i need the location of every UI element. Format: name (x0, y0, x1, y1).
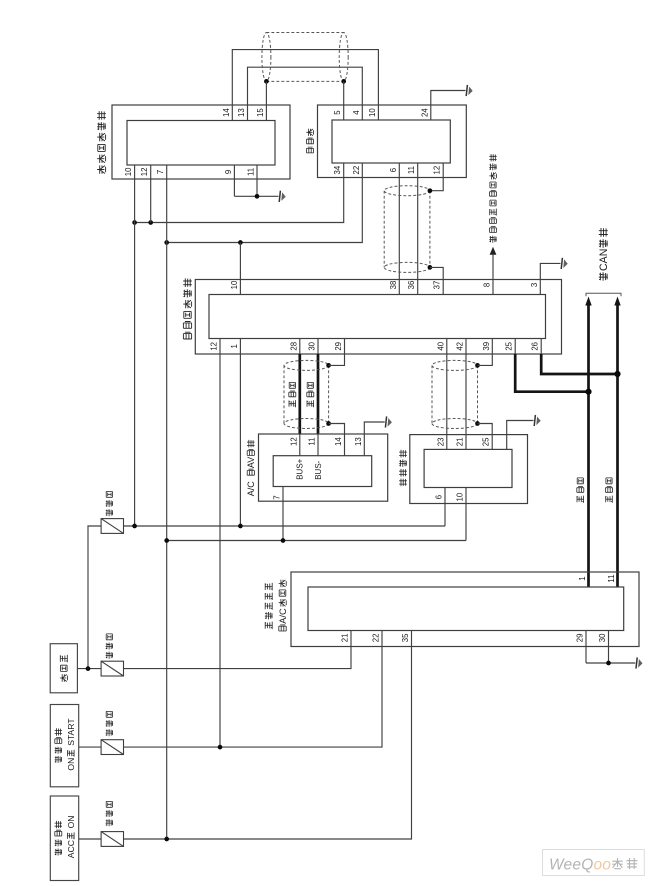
arrowhead CAN right (614, 297, 620, 306)
svg-text:ON: ON (66, 758, 76, 771)
label 数据线 (CAN-L) (577, 478, 584, 503)
svg-text:3: 3 (530, 283, 539, 287)
svg-text:12: 12 (433, 166, 442, 175)
svg-text:9: 9 (224, 170, 233, 174)
label ON或START (66, 718, 76, 771)
svg-text:8: 8 (483, 283, 492, 287)
wire meter pin30 down (608, 631, 610, 664)
shielded cable S3 (DCU-AC data) (284, 360, 329, 428)
fuse F3 保险丝 (101, 740, 123, 755)
label BUS+ (295, 458, 304, 479)
svg-text:A/C: A/C (246, 481, 256, 497)
svg-text:12: 12 (140, 168, 149, 177)
label BUS- (314, 460, 323, 479)
label 数据线 (CAN-H) (606, 478, 613, 503)
fuse F2 保险丝 (101, 661, 123, 676)
wire DCU pin12 down to ON/START line (219, 339, 221, 748)
fuse F4 保险丝 (101, 832, 123, 847)
wire shield S1 to display pin5 (343, 81, 345, 120)
junction CAN-L / DCU25 (585, 389, 591, 395)
label 至CAN系统 (598, 228, 610, 281)
svg-text:11: 11 (247, 168, 256, 176)
ignition switch 点火开关 ACC或ON (50, 796, 78, 881)
junction line2/nav7 (164, 538, 169, 543)
wire AC pin7 down to AV supply line (282, 487, 284, 541)
svg-text:4: 4 (352, 110, 361, 115)
wire meter pin29 down (585, 631, 587, 664)
wire data line DCU28 to AC12 (thick) (298, 354, 301, 434)
svg-text:40: 40 (436, 341, 445, 350)
junction nav11/ground (255, 194, 260, 199)
svg-text:13: 13 (354, 437, 363, 446)
svg-text:BUS-: BUS- (314, 460, 323, 479)
shielded cable S4 (DCU-audio) (432, 360, 478, 428)
junction nav7/disp22 (164, 240, 169, 245)
ground G3 (DCU 3) (561, 258, 568, 269)
junction ON-line/DCU12 (218, 745, 223, 750)
label ACC或ON (66, 816, 76, 859)
svg-text:1: 1 (230, 344, 239, 348)
ground G6 (meter 29/30) (636, 657, 643, 668)
wire nav 9-11 join to ground (234, 195, 278, 197)
shield S3 bottom drain (326, 421, 331, 426)
svg-text:36: 36 (407, 281, 416, 290)
ground G1 (nav 9/11) (279, 191, 286, 202)
junction ACC-line/nav7 (164, 837, 169, 842)
svg-text:25: 25 (482, 437, 491, 446)
stub DCU pin28 (299, 339, 301, 355)
watermark 维库 (612, 858, 637, 869)
label 显示控制单元 (183, 278, 192, 339)
svg-text:11: 11 (407, 166, 416, 174)
label 数据线 (S3 right) (307, 382, 314, 407)
wire data line DCU25 to CAN-L (thick) (515, 354, 588, 392)
svg-text:START: START (66, 718, 76, 746)
wire shield S1 to nav pin15 (265, 81, 267, 120)
svg-text:ACC: ACC (66, 840, 76, 858)
wire shield S3 bottom to AC pin14 (329, 424, 345, 456)
shield S1 left drain junction (264, 79, 269, 84)
label 保险丝 (F3) (106, 711, 113, 736)
junction fuse1/nav10 (132, 524, 137, 529)
wire nav pin12 down (150, 165, 152, 223)
wire fuse1 feed line (ACC-B) to audio pin6 (123, 525, 445, 527)
svg-text:ON: ON (66, 816, 76, 829)
wire pin14 nav to pin10 display (outer loop) (232, 50, 378, 121)
shield S3 top drain (326, 363, 331, 368)
svg-text:12: 12 (210, 342, 219, 351)
wire nav pin11 down (256, 165, 258, 196)
svg-text:6: 6 (435, 495, 444, 499)
svg-text:22: 22 (352, 166, 361, 175)
wire CAN line right (thick) (616, 305, 619, 587)
svg-text:1: 1 (578, 576, 587, 580)
wire display pin11 to DCU pin36 (417, 163, 419, 295)
wire audio ground pin up (507, 421, 534, 450)
shielded cable S1 (nav13/15 - display 5/4) (262, 33, 348, 82)
label A/C和AV开关 (246, 440, 256, 496)
label 点火开关 (ACC) (55, 821, 62, 856)
wire ign2 to fuse4 (79, 838, 102, 840)
wire display pin22 bus to nav pin7 line (167, 163, 363, 243)
A/C and AV switch A/C和AV开关 (259, 434, 388, 501)
svg-text:WeeQoo: WeeQoo (549, 857, 611, 874)
svg-text:6: 6 (389, 168, 398, 172)
wire battery to fuse2 (77, 668, 101, 670)
shield S2 bottom drain (428, 265, 433, 270)
wire display pin6 to DCU pin38 (398, 163, 400, 295)
wire nav pin7 down to ACC line (166, 165, 168, 839)
wire display pin12 to shield S2 top (430, 163, 443, 191)
integrated meter and A/C amplifier 一体化仪表和A/C放大器 (291, 572, 639, 647)
stub DCU pin30 (317, 339, 319, 355)
label 保险丝 (F2) (106, 634, 113, 659)
svg-text:23: 23 (436, 438, 445, 447)
wire audio pin6 down (444, 488, 446, 527)
svg-text:11: 11 (607, 575, 616, 583)
wire shield S2 bottom to DCU pin37 (430, 267, 443, 294)
wire shield S4 bottom to audio pin25 (478, 424, 493, 450)
label 蓄电池 (60, 655, 68, 682)
svg-text:10: 10 (230, 280, 239, 289)
ground G4 (AC 13) (385, 416, 392, 427)
label 和A/C放大器 (278, 580, 288, 631)
junction nav10/disp34 (132, 220, 137, 225)
label 保险丝 (F4) (106, 801, 113, 826)
junction line2/AC7 (281, 538, 286, 543)
svg-text:38: 38 (389, 281, 398, 290)
label 显示器 (306, 129, 313, 153)
svg-text:24: 24 (420, 108, 429, 117)
shielded cable S2 (display-DCU) (384, 186, 430, 273)
label 一体化仪表 (265, 583, 273, 629)
svg-text:A/C: A/C (278, 608, 288, 624)
display unit 显示器 (318, 105, 467, 178)
svg-text:7: 7 (273, 495, 282, 499)
junction nav12/disp34 (148, 220, 153, 225)
wire DCU pin42 to audio pin21 (465, 339, 467, 450)
wire shield S3 top to DCU pin29 (329, 339, 345, 366)
svg-text:35: 35 (401, 633, 410, 642)
wire AC pin13 to ground (364, 422, 384, 456)
label 音响单元 (399, 450, 407, 486)
ignition switch 点火开关 ON或START (50, 705, 78, 787)
wire data line DCU26 to CAN-H (thick) (541, 354, 617, 374)
battery 蓄电池 (50, 644, 77, 693)
svg-text:29: 29 (576, 634, 585, 643)
svg-text:10: 10 (124, 167, 133, 176)
svg-text:34: 34 (333, 165, 342, 174)
fuse F1 保险丝 (101, 519, 123, 534)
svg-text:21: 21 (456, 438, 465, 447)
wire battery line to meter pin21 (123, 631, 351, 669)
svg-text:26: 26 (531, 342, 540, 351)
wire DCU pin10 up to disp22 bus (239, 243, 241, 295)
shield S4 bottom drain (475, 421, 480, 426)
junction meter30/ground (606, 661, 611, 666)
svg-text:10: 10 (456, 492, 465, 501)
shield S4 top drain (475, 363, 480, 368)
svg-text:30: 30 (598, 633, 607, 642)
wire audio pin10 down (465, 488, 467, 541)
wire ACC line to meter pin35 (123, 631, 411, 840)
svg-text:39: 39 (482, 342, 491, 351)
wire DCU pin1 down to fuse1 line (239, 339, 241, 527)
svg-text:30: 30 (308, 341, 317, 350)
label 保险丝 (F1) (106, 491, 113, 516)
svg-text:10: 10 (368, 108, 377, 117)
wire CAN line left (thick) (587, 305, 590, 587)
stub AC pin12 (299, 434, 301, 456)
ground G2 (display 24) (466, 85, 473, 96)
stub DCU pin25 (514, 339, 516, 355)
label 点火开关 (ON) (55, 728, 62, 763)
svg-text:12: 12 (289, 437, 298, 446)
wire fuse1 to battery feed (88, 526, 101, 669)
navigation control unit 导航控制单元 (112, 105, 290, 179)
svg-text:28: 28 (289, 342, 298, 351)
audio unit 音响单元 (410, 435, 528, 504)
svg-text:29: 29 (334, 342, 343, 351)
shield S2 top drain (428, 188, 433, 193)
display control unit 显示控制单元 (195, 280, 561, 355)
junction DCU10/disp22 (238, 240, 243, 245)
shield S1 right drain junction (341, 79, 346, 84)
svg-text:25: 25 (505, 341, 514, 350)
svg-text:15: 15 (256, 108, 265, 117)
wire DCU pin8 up to arrow (492, 255, 494, 295)
wire nav pin9 down (233, 165, 235, 196)
svg-text:14: 14 (222, 108, 231, 117)
junction fuse1/DCU1 (238, 524, 243, 529)
wire display pin34 to nav supply bus (135, 163, 344, 223)
svg-text:22: 22 (372, 634, 381, 643)
label 至后视摄像机控制单元 (489, 154, 496, 243)
arrow to rear camera unit (490, 247, 497, 255)
stub AC pin11 (317, 434, 319, 456)
wire meter 29/30 to ground (586, 662, 635, 664)
junction CAN-H / DCU26 (614, 371, 620, 377)
wire shield S4 top to DCU pin39 (478, 339, 493, 366)
arrowhead CAN left (585, 297, 591, 306)
wire nav7 line to audio pin10 (167, 540, 466, 542)
svg-text:BUS+: BUS+ (295, 458, 304, 479)
wire DCU pin3 to ground (540, 263, 560, 294)
label 导航控制单元 (97, 111, 106, 174)
label 数据线 (S3 left) (289, 382, 296, 407)
junction battery/fuse1 branch (86, 666, 91, 671)
svg-text:AV: AV (246, 457, 256, 468)
wire nav pin10 down to fuse line (134, 165, 136, 526)
svg-text:13: 13 (237, 108, 246, 117)
svg-text:7: 7 (156, 170, 165, 174)
wire ign1 to fuse3 (79, 746, 102, 748)
svg-text:37: 37 (433, 281, 442, 290)
wire pin13 nav to pin4 display (inner loop) (248, 67, 363, 120)
watermark WeeQoo (543, 850, 645, 876)
stub DCU pin26 (540, 339, 542, 355)
bracket over CAN arrows (586, 293, 621, 296)
svg-text:CAN: CAN (598, 249, 610, 271)
wire display pin24 to ground (431, 91, 466, 121)
wire DCU pin40 to audio pin23 (446, 339, 448, 450)
svg-text:5: 5 (333, 110, 342, 115)
wire data line DCU30 to AC11 (thick) (317, 354, 320, 434)
ground G5 (audio) (534, 415, 541, 426)
svg-text:11: 11 (308, 438, 317, 446)
svg-text:14: 14 (334, 437, 343, 446)
wire ON/START line to meter pin22 (123, 631, 382, 748)
svg-text:42: 42 (456, 342, 465, 351)
svg-text:21: 21 (341, 634, 350, 643)
